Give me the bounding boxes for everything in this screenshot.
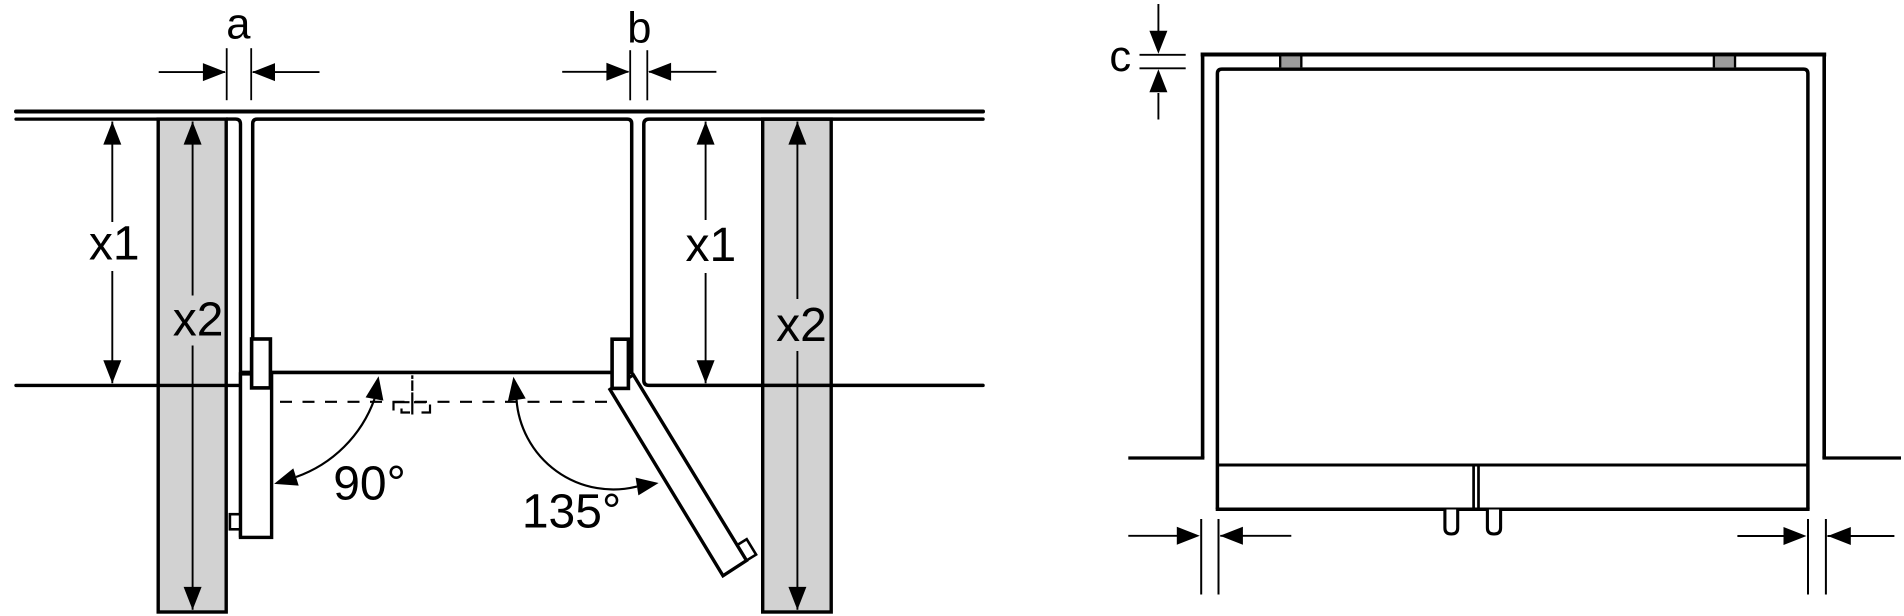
right adjacent furniture (compartment)	[644, 119, 983, 385]
135deg swing arc	[517, 400, 638, 490]
dimension b ticks	[629, 50, 631, 100]
svg-text:x1: x1	[89, 217, 140, 270]
svg-text:135°: 135°	[522, 486, 621, 539]
svg-text:b: b	[627, 5, 651, 53]
center dashed line	[411, 375, 413, 414]
niche right front stub	[1822, 456, 1901, 459]
niche right wall	[1822, 53, 1826, 459]
left door hinge	[252, 339, 271, 388]
door handle (135deg open door)	[737, 539, 756, 560]
x2 left dimension line	[192, 122, 194, 296]
svg-text:90°: 90°	[333, 458, 406, 511]
svg-text:x2: x2	[776, 299, 827, 352]
bottom left ticks	[1200, 519, 1202, 595]
rear wall line	[16, 110, 983, 114]
bottom right arrows	[1737, 535, 1786, 537]
appliance body/door divider	[1217, 464, 1808, 467]
left rear spacer (gray)	[1281, 56, 1300, 67]
right door hinge	[612, 339, 628, 388]
appliance outline (top view, in niche)	[1217, 69, 1808, 509]
svg-text:c: c	[1109, 33, 1131, 81]
x1 left dimension line	[111, 122, 113, 223]
90deg arc arrowheads	[366, 376, 384, 400]
door swing dashed line	[280, 401, 607, 403]
90deg swing arc	[296, 399, 375, 477]
bottom left arrows	[1128, 535, 1177, 537]
dimension b arrowheads	[606, 63, 629, 81]
left furniture front line (datum)	[16, 384, 241, 387]
hinge pivot dashed marker	[394, 402, 431, 412]
left niche side panel + open door left edge line	[226, 119, 241, 537]
dimension a arrowheads	[203, 63, 226, 81]
rear wall inner line (left segment)	[16, 117, 159, 120]
left wall cabinet column (gray, x2 side)	[158, 119, 226, 612]
svg-text:a: a	[226, 0, 251, 48]
appliance feet/pins	[1445, 510, 1458, 535]
right wall cabinet column (gray, x2 side)	[763, 119, 832, 612]
niche left front stub	[1128, 456, 1204, 459]
appliance cabinet (top view)	[253, 119, 632, 374]
svg-text:x1: x1	[685, 219, 736, 272]
dimension c arrows	[1157, 4, 1159, 32]
right rear spacer (gray)	[1715, 56, 1734, 67]
appliance front line	[241, 371, 630, 375]
open door at 90deg	[241, 374, 272, 538]
dimension a ticks	[226, 48, 228, 100]
dimension a arrow lines	[159, 71, 225, 73]
dimension c ticks	[1140, 54, 1186, 56]
x1 right dimension line	[705, 122, 707, 221]
svg-text:x2: x2	[173, 293, 224, 346]
135deg arc arrowheads	[508, 377, 526, 401]
open door at 135deg	[610, 375, 747, 576]
dimension b arrow lines	[562, 71, 628, 73]
door handle (90deg open door)	[230, 514, 241, 529]
niche left wall	[1201, 53, 1205, 459]
center door split	[1472, 467, 1475, 509]
x2 right dimension line	[796, 122, 798, 300]
bottom right ticks	[1807, 519, 1809, 595]
niche rear wall	[1201, 53, 1827, 57]
appliance front bottom edge	[1216, 507, 1810, 511]
